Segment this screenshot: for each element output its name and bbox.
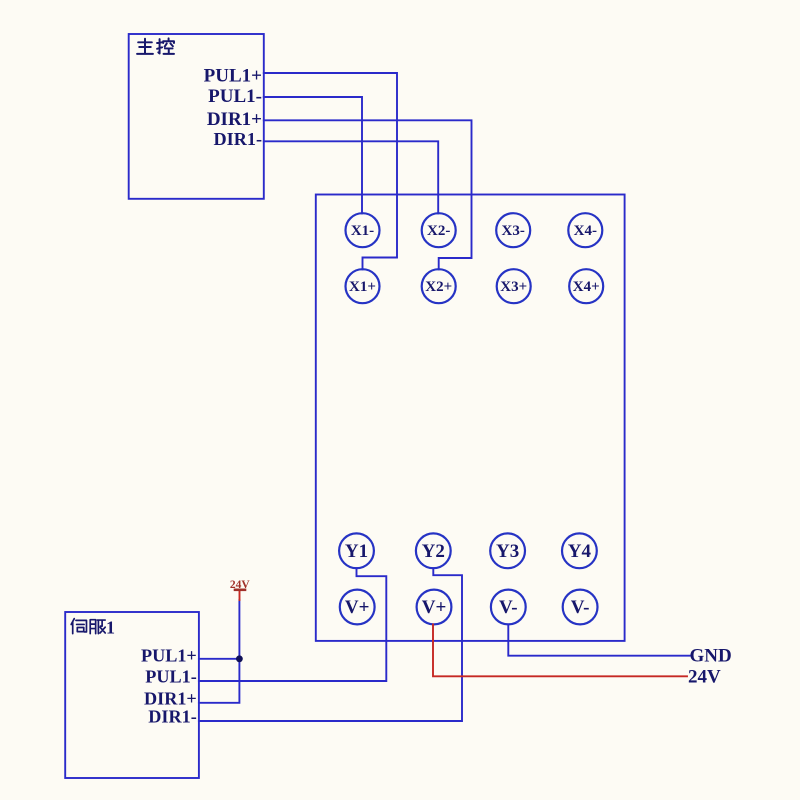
terminal X2- [422,213,456,247]
wire servo PUL1+ to node A [199,658,240,660]
terminal Y4 [562,533,597,568]
svg-text:DIR1+: DIR1+ [144,688,197,708]
wire PUL1+ controller to X1+ [264,73,397,269]
terminal strip box [316,195,625,641]
terminal X4- [568,213,602,247]
svg-text:PUL1+: PUL1+ [141,645,197,665]
svg-text:DIR1-: DIR1- [214,129,263,149]
wire PUL1- controller to X1- [264,97,362,213]
svg-text:X3-: X3- [502,223,525,239]
svg-text:GND: GND [690,646,732,667]
wire Y2 to servo DIR1- [199,568,462,721]
svg-text:1: 1 [106,618,115,638]
terminal X1+ [346,269,380,303]
svg-text:V-: V- [571,597,590,618]
servo box 伺服1 [65,612,199,778]
wire node A up to 24V supply [238,600,240,659]
svg-text:X4-: X4- [574,223,597,239]
terminal V- A [491,590,526,625]
svg-text:24V: 24V [688,667,721,688]
svg-text:Y3: Y3 [496,541,519,562]
svg-text:PUL1-: PUL1- [145,667,197,687]
junction dot node A [236,655,243,662]
svg-text:X2+: X2+ [425,279,452,295]
terminal Y1 [339,533,374,568]
controller box 主控 [129,34,264,199]
svg-text:X2-: X2- [427,223,450,239]
terminal Y3 [490,533,525,568]
svg-text:DIR1+: DIR1+ [207,109,262,130]
svg-text:24V: 24V [230,579,251,591]
power symbol 24V supply [230,579,251,600]
svg-text:PUL1-: PUL1- [208,86,262,107]
svg-text:Y4: Y4 [568,541,592,562]
terminal X3+ [497,269,531,303]
terminal Y2 [416,533,451,568]
terminal X1- [346,213,380,247]
controller title 主控 [137,38,174,53]
terminal V+ B [417,590,452,625]
servo title 伺服1 [71,619,105,634]
terminal X2+ [422,269,456,303]
terminal X4+ [569,269,603,303]
svg-text:PUL1+: PUL1+ [204,66,262,87]
svg-text:X1+: X1+ [349,279,376,295]
svg-text:V+: V+ [422,597,447,618]
svg-text:V+: V+ [345,597,370,618]
svg-text:Y2: Y2 [422,541,445,562]
wire V- to GND [508,624,689,655]
svg-text:Y1: Y1 [345,541,368,562]
wire node A to servo DIR1+ [199,659,240,703]
wire V+ to 24V (red) [433,624,687,676]
terminal X3- [496,213,530,247]
svg-text:V-: V- [499,597,518,618]
svg-text:DIR1-: DIR1- [148,707,197,727]
svg-text:X4+: X4+ [573,279,600,295]
svg-text:X1-: X1- [351,223,374,239]
wire DIR1+ controller to X2+ [264,120,472,269]
wire DIR1- controller to X2- [264,141,438,213]
svg-text:X3+: X3+ [500,279,527,295]
terminal V- B [563,590,598,625]
wire Y1 to servo PUL1- [199,568,386,681]
terminal V+ A [340,590,375,625]
